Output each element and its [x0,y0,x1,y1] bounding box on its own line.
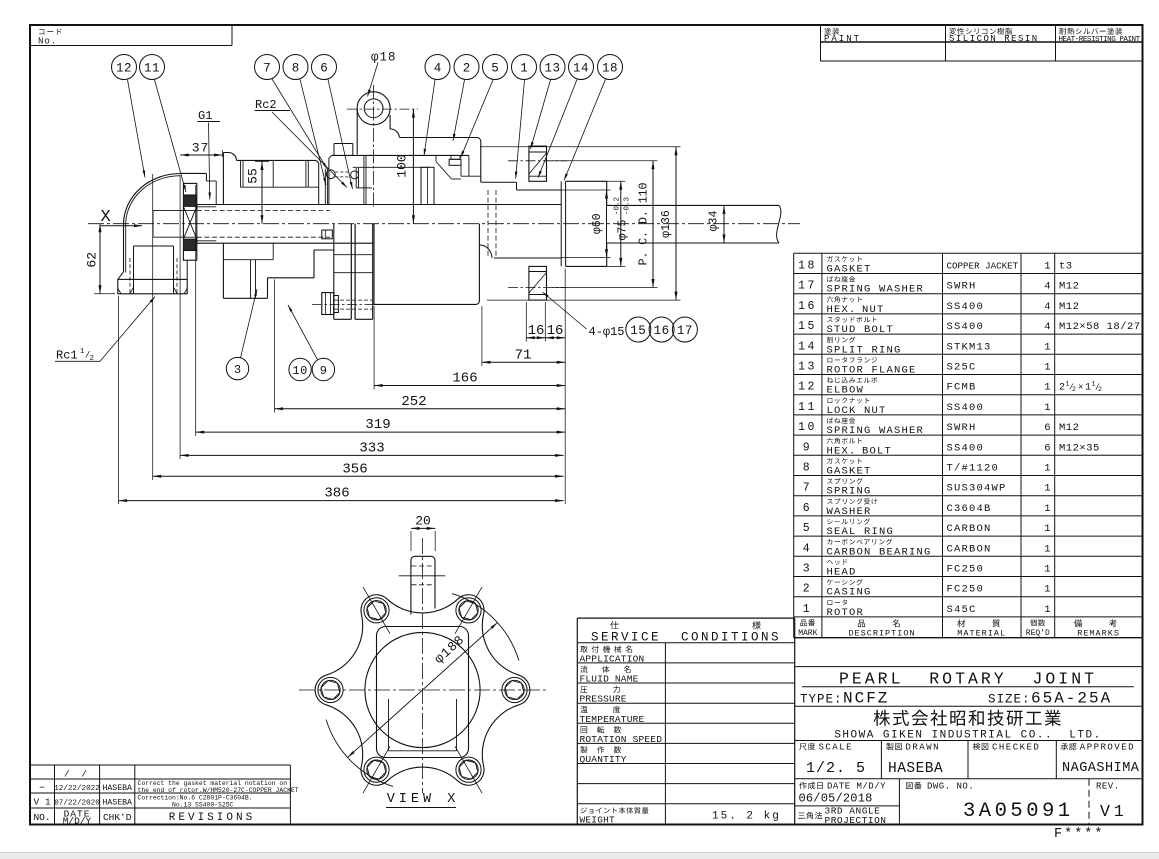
svg-text:V 1: V 1 [33,797,50,808]
balloon 5 [483,55,508,80]
svg-text:REQ'D: REQ'D [1026,629,1050,638]
spring washer item 10 [334,296,339,313]
leader G1 [209,123,210,200]
balloon 3 [226,357,248,379]
heat resisting jp [1059,28,1122,35]
svg-text:333: 333 [359,440,384,456]
stud bottom nut line [529,294,547,296]
title underline [802,686,1134,688]
service row ROTATION SPEED [581,726,622,733]
balloon 7 [255,55,280,80]
svg-text:9: 9 [320,364,327,378]
leader balloon 12 [128,80,146,178]
flange bolt hole lines [334,254,373,256]
svg-text:φ136: φ136 [660,210,673,238]
rotor phi60 bottom edge [494,257,561,259]
svg-text:the end of rotor.W/HM520-27C-C: the end of rotor.W/HM520-27C-COPPER JACK… [138,787,299,794]
head inner wall right [305,160,307,187]
svg-text:SPRING WASHER: SPRING WASHER [827,284,925,296]
svg-text:ROTATION SPEED: ROTATION SPEED [580,734,663,745]
svg-text:COPPER JACKET: COPPER JACKET [947,261,1019,272]
leader balloon 8 [300,79,326,185]
head left rim [223,153,236,161]
svg-text:17: 17 [798,280,817,293]
svg-text:356: 356 [342,461,367,477]
service row QUANTITY [580,746,621,753]
svg-text:6: 6 [320,62,328,76]
lock nut divider top [183,194,196,196]
svg-text:M12: M12 [1059,422,1079,434]
svg-text:APPLICATION: APPLICATION [580,653,645,664]
leader balloon 11 [155,80,187,192]
head left face lower [222,243,224,298]
svg-text:1: 1 [1044,604,1050,616]
dim 71 [482,361,565,363]
main centerline [88,223,800,225]
parts table header row [800,619,815,626]
svg-text:252: 252 [401,394,426,410]
leader balloon 3 [241,289,258,358]
svg-text:G1: G1 [198,109,212,123]
shaft break line [777,205,781,243]
svg-text:–: – [39,782,46,794]
lock nut washer dark lower [183,239,196,251]
svg-text:SEAL RING: SEAL RING [827,526,895,538]
svg-text:4: 4 [803,542,812,555]
svg-text:SCALE: SCALE [819,743,854,753]
rotor bore hidden top [197,209,330,211]
head bottom edge [223,297,267,299]
elbow hub seat [206,180,216,182]
svg-text:20: 20 [415,514,431,529]
rotor flange plate A [333,224,335,320]
balloon 11 [140,55,165,80]
svg-text:1: 1 [520,62,528,76]
dim 20 ext lines [410,531,412,551]
svg-text:NCFZ: NCFZ [843,690,889,708]
shaft fillet at box [479,245,492,258]
ext line x196 [195,185,197,436]
svg-text:10: 10 [798,421,817,434]
balloons 15 16 17 [626,317,651,342]
head inner wall mid [272,160,274,187]
leader balloon 4 [424,80,435,156]
leader balloon 9-10 [288,305,318,360]
svg-text:12: 12 [798,381,817,394]
lock nut divider low [183,238,196,240]
casing top edge right [400,137,478,139]
service row APPLICATION [580,646,632,653]
casing chamber bore top [353,166,429,168]
elbow outer arc [124,174,181,225]
svg-text:SIZE:: SIZE: [988,693,1031,707]
shaft phi34 bottom edge [607,242,779,244]
elbow bore left [133,246,135,294]
dim 386 [119,500,564,502]
svg-text:GASKET: GASKET [827,264,872,276]
svg-text:SWRH: SWRH [947,422,977,434]
svg-text:1: 1 [1044,382,1050,394]
svg-text:55: 55 [246,168,261,184]
leader balloon 2 [453,80,465,141]
svg-text:1/2. 5: 1/2. 5 [806,760,866,777]
svg-text:4: 4 [434,62,442,76]
svg-text:14: 14 [798,340,817,353]
dim 37 ext lines [222,150,224,157]
dim phi136 [675,147,677,300]
rotor flange plate B [354,224,356,320]
balloon 4 [425,55,450,80]
view X rotor square [377,627,469,758]
ext line x565 shared [564,269,566,505]
projection label [798,812,822,819]
svg-text:3: 3 [803,563,812,576]
stud bottom hatch [529,273,547,294]
svg-text:8: 8 [803,462,812,475]
phi188 reference arc top right [452,594,519,661]
head right face [318,164,320,205]
spring dashed line bottom [335,176,350,178]
svg-text:MARK: MARK [798,629,817,638]
stud bolt bottom block [529,266,547,300]
svg-text:HEAD: HEAD [827,567,857,579]
svg-text:HASEBA: HASEBA [102,784,132,793]
svg-text:4: 4 [1044,301,1050,313]
svg-text:WEIGHT: WEIGHT [580,814,616,825]
svg-text:FCMB: FCMB [947,382,977,394]
svg-text:DWG. NO.: DWG. NO. [927,782,974,792]
flange upper small bolt [322,230,333,239]
svg-text:3A05091: 3A05091 [963,800,1074,823]
svg-text:PROJECTION: PROJECTION [825,815,887,826]
svg-text:1: 1 [1044,584,1050,596]
svg-text:1: 1 [1044,503,1050,515]
leader balloon 13 [531,80,551,149]
casing lower box [374,224,479,305]
balloon 18 [598,55,623,80]
dim 333 [180,454,563,456]
elbow left face [123,225,125,272]
head bottom step [267,278,269,299]
balloon 6 [312,55,337,80]
view X title underline [386,807,456,809]
casing lug right side [389,115,391,129]
svg-text:SPRING: SPRING [827,486,872,498]
rotor shaft top edge [197,204,561,206]
svg-text:SHOWA GIKEN INDUSTRIAL CO.. L: SHOWA GIKEN INDUSTRIAL CO.. LTD. [834,729,1101,741]
service conditions header jp [610,621,619,629]
dim pcd110 [652,161,654,288]
view X flange outer outline [315,595,530,785]
rotor phi60 top edge [517,189,562,191]
title block grid [794,638,796,825]
svg-text:No.13 SS400-S25C: No.13 SS400-S25C [172,801,234,808]
gland bottom ledge [452,178,462,180]
elbow left flare [118,272,124,280]
svg-text:166: 166 [452,371,477,387]
casing boss above seal [333,144,335,156]
casing gland step [481,181,517,183]
leader balloon 7 [272,79,328,170]
svg-text:-0.2: -0.2 [614,197,622,215]
view X shaft hidden bore [412,565,435,567]
svg-text:14: 14 [573,62,589,76]
svg-text:319: 319 [365,417,390,433]
svg-text:GASKET: GASKET [827,466,872,478]
svg-text:M/D/Y: M/D/Y [63,815,92,826]
view X bolt at 240deg [364,598,389,623]
stud top centerline [508,160,567,162]
elbow hub right face [205,173,207,181]
elbow thread dashed right [176,258,178,294]
svg-text:11: 11 [144,62,160,76]
svg-text:4: 4 [1044,321,1050,333]
hex bolt item 9 head [322,293,334,315]
svg-text:SS400: SS400 [947,301,985,313]
gland block [460,159,462,176]
svg-text:2: 2 [1072,386,1076,393]
elbow foot chamfer right [184,289,187,294]
svg-text:06/05/2018: 06/05/2018 [799,792,873,806]
bottom page edge strip [0,853,1159,859]
phi188 reference arc bottom left [326,720,393,787]
svg-text:16: 16 [798,300,817,313]
svg-text:DATE M/D/Y: DATE M/D/Y [827,782,886,792]
svg-text:VIEW X: VIEW X [387,792,460,807]
svg-text:71: 71 [515,347,532,363]
balloon 9 [312,358,334,380]
svg-text:DRAWN: DRAWN [906,743,941,753]
elbow port mouth [152,210,154,237]
svg-text:12: 12 [116,62,132,76]
svg-text:CHK'D: CHK'D [103,812,132,823]
svg-text:/ /: / / [64,768,90,779]
casing left face [328,158,330,204]
svg-text:16: 16 [528,323,545,339]
svg-text:PRESSURE: PRESSURE [580,694,627,705]
svg-text:QUANTITY: QUANTITY [580,754,627,765]
checked label [973,743,989,750]
lock nut divider mid [183,205,196,207]
split ring collar item 14 [566,180,607,182]
ext line x118 [118,296,120,504]
rotor left end face [196,205,198,211]
dim 319 [196,431,566,433]
flange bolt hidden lines [334,299,373,301]
svg-text:SWRH: SWRH [947,281,977,293]
svg-text:M12×35: M12×35 [1059,442,1100,454]
svg-text:T/#1120: T/#1120 [947,463,1000,475]
dim phi34 [723,205,725,243]
svg-text:APPROVED: APPROVED [1080,743,1135,753]
svg-text:62: 62 [85,252,100,268]
dim 62 [99,224,101,294]
casing lug v-centerline [373,85,375,208]
svg-text:S45C: S45C [947,604,977,616]
svg-text:NUT: NUT [862,304,885,316]
svg-text:φ60: φ60 [591,213,604,234]
lock nut cross X [183,206,196,239]
svg-text:15: 15 [798,320,817,333]
elbow foot chamfer left [118,289,121,294]
leader balloon 1 [516,80,525,178]
elbow bore chamfer right [174,287,178,294]
view X horizontal centerline [299,689,546,691]
rotor bore hidden bottom [197,236,330,238]
view X bolt at 60deg [456,757,481,782]
casing lug left side [356,109,358,155]
svg-text:4: 4 [1044,281,1050,293]
svg-text:HEAT-RESISTING PAINT: HEAT-RESISTING PAINT [1059,36,1141,44]
svg-text:ROTOR FLANGE: ROTOR FLANGE [827,365,917,377]
ext line x180 [179,175,181,459]
svg-text:15: 15 [630,324,646,338]
leader phi18 [368,63,379,97]
seal ring item 5 [449,159,461,165]
svg-text:TEMPERATURE: TEMPERATURE [580,714,645,725]
leader balloon 6 [328,79,353,189]
spring item 7 right coil [351,171,359,179]
svg-text:REMARKS: REMARKS [1077,628,1120,638]
svg-text:SILICON RESIN: SILICON RESIN [949,34,1039,44]
gland chamfer diagonal [436,162,452,180]
svg-text:2: 2 [803,583,812,596]
svg-text:8: 8 [292,62,300,76]
balloon 2 [454,55,479,80]
dim 356 [153,475,564,477]
svg-text:CARBON: CARBON [947,543,992,555]
dim phi75 ext lines [607,180,626,182]
svg-text:SS400: SS400 [947,321,985,333]
elbow inner arc [126,176,181,225]
flange bolt centerline [312,304,380,306]
dim 55 ext tick [255,161,269,163]
svg-text:HASEBA: HASEBA [102,798,132,807]
head bore line [241,186,319,188]
svg-text:P. C. D. 110: P. C. D. 110 [638,183,651,266]
rotor shaft bottom edge [197,242,373,244]
ext line x526 [525,302,527,342]
svg-text:LOCK NUT: LOCK NUT [827,405,887,417]
svg-text:65A-25A: 65A-25A [1031,690,1112,708]
svg-text:M12: M12 [1059,301,1079,313]
svg-text:2: 2 [1098,386,1102,393]
service conditions grid [577,617,794,619]
svg-text:×: × [1078,383,1083,393]
dim phi136 ext lines [480,146,681,148]
svg-text:15. 2 kg: 15. 2 kg [712,811,781,823]
svg-text:Rc1: Rc1 [56,349,78,363]
svg-text:SPRING WASHER: SPRING WASHER [827,425,925,437]
elbow thread dashed left [129,258,131,294]
svg-text:CARBON: CARBON [947,523,992,535]
svg-text:37: 37 [192,141,210,156]
leader 4-phi15 [543,292,587,329]
svg-text:13: 13 [544,62,560,76]
view X center bore circle [365,632,480,747]
dim 100 [412,109,414,224]
leader balloon 14 [538,80,577,178]
dim phi60 ext lines [561,189,610,191]
silicon resin jp [949,28,1012,35]
svg-text:1: 1 [1044,564,1050,576]
svg-text:386: 386 [324,486,349,502]
view X square inner left line [388,699,390,751]
svg-text:TYPE:: TYPE: [800,693,843,707]
approved label [1061,743,1077,750]
svg-text:PAINT: PAINT [824,34,861,44]
svg-text:FLUID NAME: FLUID NAME [580,674,639,685]
ext line x152 [152,174,154,480]
ext line x374 [373,306,375,390]
balloon 12 [112,55,137,80]
washer item 6 [355,168,357,188]
svg-text:φ18: φ18 [371,51,397,65]
svg-text:M12: M12 [1059,281,1079,293]
svg-text:1: 1 [1044,362,1050,374]
svg-text:2: 2 [90,355,95,363]
parts list table grid [793,253,795,637]
svg-text:6: 6 [803,502,812,515]
svg-text:Rc2: Rc2 [255,98,277,112]
casing right face [480,142,482,182]
svg-text:ELBOW: ELBOW [827,385,865,397]
svg-text:3: 3 [234,363,241,377]
head top edge [237,159,316,161]
code label katakana [39,29,61,35]
svg-text:φ34: φ34 [708,211,721,232]
service row TEMPERATURE [580,706,620,713]
svg-text:FC250: FC250 [947,564,985,576]
svg-text:REVISIONS: REVISIONS [169,812,255,824]
dim phi60 [606,190,608,258]
svg-text:1: 1 [1085,383,1091,394]
svg-text:X: X [101,208,111,227]
stud top hatch [529,153,547,174]
casing chamber wall [363,156,365,205]
gland inner vertical [435,155,437,161]
balloon 10 [289,358,311,380]
dim phi188 line [348,623,498,758]
balloon 14 [569,55,594,80]
gasket item 18 [560,181,562,266]
head lower boss line [223,259,273,261]
svg-text:HEX.: HEX. [827,304,857,316]
ext line x274 [274,280,276,413]
svg-text:t3: t3 [1059,261,1073,273]
svg-text:1: 1 [803,603,812,616]
svg-text:FC250: FC250 [947,584,985,596]
svg-text:STKM13: STKM13 [947,341,992,353]
svg-text:φ75: φ75 [617,220,630,241]
svg-text:1: 1 [1044,483,1050,495]
service row FLUID NAME [580,666,630,673]
svg-text:2: 2 [1059,383,1065,394]
dim pcd110 ext lines [552,160,658,162]
svg-text:SS400: SS400 [947,442,985,454]
svg-text:WASHER: WASHER [827,506,872,518]
svg-text:6: 6 [1044,422,1050,434]
svg-text:4-φ15: 4-φ15 [589,325,625,339]
leader balloon 18 [564,79,606,180]
svg-text:2: 2 [463,62,471,76]
svg-text:13: 13 [798,361,817,374]
svg-text:11: 11 [798,401,817,414]
code no. box [30,45,232,47]
dim phi75 [620,181,622,266]
svg-text:CARBON BEARING: CARBON BEARING [827,546,932,558]
head lower port [250,260,252,298]
